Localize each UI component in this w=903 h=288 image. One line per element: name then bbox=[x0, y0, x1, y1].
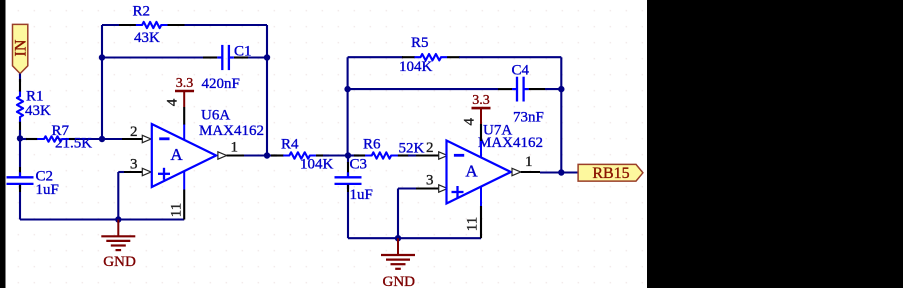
resistor R7 body bbox=[37, 136, 69, 141]
junction node OUT2 bbox=[558, 169, 564, 175]
svg-text:2: 2 bbox=[426, 140, 434, 156]
wire feedback2 top left bbox=[348, 56, 403, 58]
svg-text:GND: GND bbox=[103, 254, 136, 270]
wire node B to C2 bbox=[19, 138, 21, 167]
svg-text:A: A bbox=[170, 145, 183, 164]
resistor R6 pins bbox=[354, 154, 366, 156]
wire feedback-right vertical bbox=[266, 25, 268, 156]
capacitor C4 pins bbox=[498, 88, 512, 90]
svg-text:C4: C4 bbox=[512, 62, 530, 78]
wire C1 left segment bbox=[102, 56, 203, 58]
wire C2 to bottom rail bbox=[19, 185, 21, 192]
wire node M to C3 bbox=[347, 156, 349, 164]
wire IN to R1 bbox=[19, 74, 21, 82]
pin 4 U7A inner stub bbox=[480, 140, 482, 157]
resistor R6 body bbox=[365, 152, 398, 158]
wire C3 to bottom rail 2 bbox=[347, 185, 349, 192]
resistor R7 pins bbox=[26, 138, 38, 140]
pin 3 U6A wire bbox=[118, 171, 124, 173]
port IN bbox=[13, 24, 28, 73]
pin 3 U6A arrow bbox=[142, 168, 151, 175]
resistor R1 body bbox=[17, 92, 23, 122]
power 3.3 U7A bar bbox=[472, 107, 491, 110]
svg-text:4: 4 bbox=[462, 117, 478, 125]
svg-text:R4: R4 bbox=[281, 137, 299, 153]
junction node IN- top bbox=[99, 54, 105, 60]
pin 1 U7A arrow bbox=[512, 168, 521, 175]
op-amp U7A body bbox=[447, 141, 511, 204]
ground GND1 symbol bbox=[117, 220, 119, 237]
junction feedback2 right bbox=[558, 86, 564, 92]
junction node IN- input bbox=[99, 136, 105, 142]
wire R2 top left segment bbox=[102, 24, 120, 26]
wire bottom rail stage1 bbox=[20, 218, 184, 220]
pin 11 U6A bbox=[183, 190, 185, 220]
op-amp U7A minus bbox=[454, 154, 464, 157]
svg-text:2: 2 bbox=[130, 124, 138, 140]
svg-text:11: 11 bbox=[169, 203, 185, 217]
junction GND2 node bbox=[395, 235, 401, 241]
wire OUT1 to R4 bbox=[267, 154, 277, 156]
power 3.3 U6A bar bbox=[175, 90, 194, 93]
junction feedback2 left bbox=[344, 86, 350, 92]
op-amp U6A body bbox=[152, 124, 216, 187]
wire bottom rail stage2 bbox=[348, 237, 481, 239]
pin 4 U7A bbox=[480, 124, 482, 141]
junction GND1 node bbox=[115, 216, 121, 222]
svg-text:43K: 43K bbox=[134, 30, 160, 46]
capacitor C1 body bbox=[217, 56, 222, 58]
port RB15 bbox=[578, 164, 643, 181]
wire node M to R6 bbox=[348, 154, 359, 156]
svg-text:52K: 52K bbox=[399, 141, 425, 157]
svg-text:1uF: 1uF bbox=[36, 182, 59, 198]
svg-text:C1: C1 bbox=[234, 44, 252, 60]
pin 2 U6A wire bbox=[102, 138, 122, 140]
wire R6 to pin2 U7A bbox=[408, 154, 416, 156]
capacitor C1 pins bbox=[203, 56, 217, 58]
svg-text:A: A bbox=[465, 162, 478, 181]
wire R1 to node B bbox=[19, 130, 21, 138]
resistor R4 body bbox=[283, 152, 316, 158]
svg-text:U6A: U6A bbox=[201, 108, 230, 124]
junction node OUT1 bbox=[264, 152, 270, 158]
svg-text:420nF: 420nF bbox=[202, 76, 240, 92]
capacitor C2 body bbox=[19, 172, 21, 177]
pin 11 U6A inner stub bbox=[183, 171, 185, 190]
wire C1 right segment bbox=[248, 56, 267, 58]
svg-text:MAX4162: MAX4162 bbox=[199, 123, 264, 139]
svg-text:104K: 104K bbox=[300, 157, 334, 173]
resistor R2 body bbox=[136, 22, 168, 28]
resistor R1 pins bbox=[19, 79, 21, 92]
svg-text:43K: 43K bbox=[25, 103, 51, 119]
wire feedback-left vertical bbox=[101, 25, 103, 139]
pin 4 U6A bbox=[183, 107, 185, 125]
wire C4 left segment bbox=[348, 88, 498, 90]
pin 1 U7A wire bbox=[521, 171, 540, 173]
svg-text:3: 3 bbox=[130, 156, 138, 172]
power 3.3 U6A stem bbox=[183, 91, 185, 107]
wire R2 top right segment bbox=[185, 24, 268, 26]
op-amp U6A minus bbox=[159, 137, 169, 140]
capacitor C3 body bbox=[347, 172, 349, 177]
wire feedback2 top right bbox=[459, 56, 561, 58]
pin 3 U7A arrow bbox=[439, 185, 448, 192]
wire C4 right segment bbox=[545, 88, 561, 90]
pin 2 U7A arrow bbox=[439, 152, 448, 159]
pin 11 U7A inner stub bbox=[480, 187, 482, 206]
junction node M bbox=[345, 152, 351, 158]
wire R4 to node M bbox=[323, 154, 348, 156]
svg-text:MAX4162: MAX4162 bbox=[478, 135, 543, 151]
pin 4 U6A inner stub bbox=[183, 124, 185, 140]
junction node B bbox=[17, 135, 23, 141]
capacitor C4 body bbox=[512, 88, 517, 90]
wire pin3 U7A riser bbox=[397, 189, 399, 239]
pin 11 U7A bbox=[480, 206, 482, 238]
pin 2 U6A arrow bbox=[142, 135, 151, 142]
wire U6A out to node OUT1 bbox=[244, 154, 267, 156]
resistor R2 pins bbox=[119, 24, 137, 26]
wire feedback2 left vertical bbox=[347, 57, 349, 155]
svg-text:C3: C3 bbox=[350, 156, 368, 172]
svg-text:3.3: 3.3 bbox=[176, 76, 194, 91]
wire node B to R7 bbox=[20, 138, 27, 140]
wire U7A out to port bbox=[540, 171, 578, 173]
svg-text:11: 11 bbox=[465, 217, 481, 231]
svg-text:3: 3 bbox=[426, 172, 434, 188]
op-amp U6A plus bbox=[158, 173, 170, 175]
svg-text:R2: R2 bbox=[133, 4, 151, 20]
resistor R5 pins bbox=[402, 56, 415, 58]
svg-text:IN: IN bbox=[13, 39, 30, 56]
svg-text:1uF: 1uF bbox=[350, 187, 373, 203]
svg-text:21.5K: 21.5K bbox=[55, 136, 92, 152]
wire pin3 ground riser bbox=[117, 172, 119, 220]
ground GND2 symbol bbox=[397, 238, 399, 255]
resistor R4 pins bbox=[271, 154, 284, 156]
pin 2 U7A wire bbox=[416, 154, 439, 156]
svg-text:104K: 104K bbox=[399, 59, 433, 75]
svg-text:R5: R5 bbox=[411, 35, 429, 51]
svg-text:73nF: 73nF bbox=[513, 109, 544, 125]
wire feedback2 right vertical bbox=[560, 57, 562, 172]
resistor R5 body bbox=[414, 54, 447, 60]
pin 1 U6A arrow bbox=[218, 152, 227, 159]
svg-text:4: 4 bbox=[165, 98, 181, 106]
op-amp U7A plus bbox=[452, 191, 464, 193]
svg-text:GND: GND bbox=[383, 274, 416, 288]
svg-text:1: 1 bbox=[231, 140, 239, 156]
pin 1 U6A wire bbox=[227, 154, 244, 156]
svg-text:RB15: RB15 bbox=[592, 165, 629, 182]
junction node OUT1 top bbox=[264, 54, 270, 60]
pin 3 U7A wire bbox=[398, 187, 416, 189]
power 3.3 U7A stem bbox=[480, 108, 482, 124]
wire R7 to node IN- bbox=[79, 138, 102, 140]
svg-text:R6: R6 bbox=[363, 137, 381, 153]
svg-text:3.3: 3.3 bbox=[472, 93, 490, 108]
svg-text:1: 1 bbox=[525, 154, 533, 170]
